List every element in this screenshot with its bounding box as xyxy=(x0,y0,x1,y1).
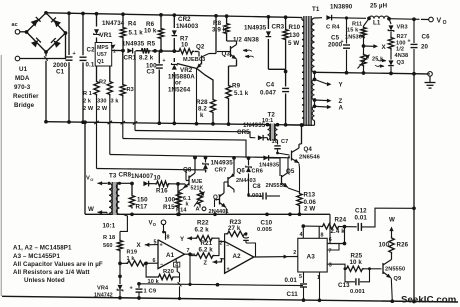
wire ground rail right xyxy=(315,72,429,74)
svg-text:150: 150 xyxy=(137,197,148,204)
svg-text:R19: R19 xyxy=(127,249,138,255)
svg-text:0.001: 0.001 xyxy=(350,289,366,295)
transistor Q8 MJE521 xyxy=(183,156,203,192)
svg-text:10 k: 10 k xyxy=(144,28,157,35)
svg-text:8.2 k: 8.2 k xyxy=(139,55,154,62)
svg-text:R2: R2 xyxy=(99,80,106,86)
svg-text:Q3: Q3 xyxy=(222,51,231,58)
svg-text:+: + xyxy=(130,285,133,291)
capacitor C8 0.001 xyxy=(247,177,280,200)
svg-text:2 k: 2 k xyxy=(83,99,92,105)
svg-text:521K: 521K xyxy=(191,185,204,191)
svg-text:10: 10 xyxy=(181,42,189,49)
svg-text:C8: C8 xyxy=(253,183,262,190)
svg-text:R16: R16 xyxy=(156,188,168,195)
svg-text:1N4935: 1N4935 xyxy=(122,40,145,47)
svg-text:C12: C12 xyxy=(355,207,367,214)
capacitor C3 100 xyxy=(146,58,166,76)
svg-text:R10: R10 xyxy=(289,24,301,31)
transistor Q9 2N5550 xyxy=(383,254,405,282)
node X receive arrow xyxy=(137,242,159,249)
svg-text:15 k: 15 k xyxy=(347,28,359,34)
wire bridge bottom to common rail xyxy=(44,52,48,122)
svg-text:10 k: 10 k xyxy=(350,259,363,266)
node X arrow xyxy=(364,44,387,51)
node W send arrow xyxy=(389,216,395,236)
wire T3 drop x127 xyxy=(120,214,127,231)
wire Q4 collector to T1 primary bottom xyxy=(299,123,303,144)
svg-text:970-3: 970-3 xyxy=(14,84,31,91)
wire A3 pin6 loop xyxy=(327,227,346,246)
svg-text:0.01: 0.01 xyxy=(285,277,298,284)
svg-text:Q1: Q1 xyxy=(97,59,104,65)
svg-text:R17: R17 xyxy=(136,204,148,211)
wire R2 cross rail xyxy=(108,96,112,155)
resistor R23 27k xyxy=(225,219,246,242)
svg-text:R15: R15 xyxy=(163,204,175,211)
capacitor C13 0.001 parallel xyxy=(338,269,370,295)
svg-text:T3: T3 xyxy=(109,173,117,180)
wire C1 vertical xyxy=(68,13,70,122)
capacitor C7 10 xyxy=(272,139,289,153)
resistor R2 330 2W xyxy=(97,80,113,113)
svg-text:1N4007: 1N4007 xyxy=(131,173,154,180)
svg-text:L1: L1 xyxy=(373,20,381,27)
node T1 center tap xyxy=(313,70,317,108)
resistor R22 6.2k xyxy=(195,220,214,241)
svg-text:2N4401: 2N4401 xyxy=(209,209,229,215)
svg-text:or: or xyxy=(175,80,182,87)
label A3 pin2 xyxy=(293,250,296,256)
wire A1 pin6 input xyxy=(144,261,158,265)
svg-text:CR7: CR7 xyxy=(215,168,227,174)
diode CR1 1N4935 xyxy=(122,40,145,61)
node C1 bottom xyxy=(67,120,71,124)
svg-text:Q3: Q3 xyxy=(397,60,405,66)
node R4 junction xyxy=(121,49,176,53)
diode bridge arm top-left xyxy=(31,17,41,27)
svg-text:560: 560 xyxy=(103,243,113,249)
svg-text:A3: A3 xyxy=(307,253,316,260)
wire R10 vertical xyxy=(285,17,287,86)
svg-text:1/2: 1/2 xyxy=(396,47,404,53)
wire CR7 bottom link xyxy=(205,170,208,173)
svg-text:330: 330 xyxy=(97,99,107,105)
svg-text:5.1 k: 5.1 k xyxy=(234,90,249,97)
svg-text:100: 100 xyxy=(165,197,176,204)
node VO terminal A1 xyxy=(149,220,166,240)
inductor L1 25uH xyxy=(369,3,389,27)
svg-text:R22: R22 xyxy=(197,220,209,227)
wire R25 to Q9 base xyxy=(364,267,382,270)
svg-text:1N4003: 1N4003 xyxy=(176,23,199,30)
svg-text:MPS: MPS xyxy=(97,45,109,51)
wire C10 feedback xyxy=(246,243,256,257)
wire R2 vertical top xyxy=(109,66,111,80)
capacitor C4 0.047 xyxy=(260,82,289,97)
wire Q7 base xyxy=(215,200,220,208)
wire ac1 to bridge xyxy=(20,31,27,33)
zener VR3 1N5364 xyxy=(388,25,407,32)
wire A3 pin1 xyxy=(317,272,321,302)
node T2 tops xyxy=(266,123,280,127)
svg-text:W: W xyxy=(88,206,94,213)
svg-text:R13: R13 xyxy=(304,192,316,199)
svg-text:100: 100 xyxy=(379,241,390,248)
wire right vertical xyxy=(413,74,415,302)
wire R3 vertical top xyxy=(122,51,124,83)
svg-text:C4: C4 xyxy=(266,82,275,89)
svg-text:2N6546: 2N6546 xyxy=(299,154,321,160)
node Z tap arrow xyxy=(315,98,343,105)
svg-text:0.1: 0.1 xyxy=(86,62,95,69)
svg-text:Bridge: Bridge xyxy=(14,102,35,109)
svg-text:C6: C6 xyxy=(422,34,431,41)
svg-text:A1, A2 – MC1458P1: A1, A2 – MC1458P1 xyxy=(13,245,72,252)
label notes xyxy=(13,245,103,284)
diode bridge arm bottom-right xyxy=(51,38,61,48)
svg-text:+: + xyxy=(408,39,411,45)
transistor Q3 phototransistor 1/2 4N38 xyxy=(217,37,259,60)
node A tap arrow xyxy=(315,104,344,111)
svg-text:+: + xyxy=(163,58,166,64)
svg-text:8: 8 xyxy=(167,235,170,241)
transistor Q5 2N5550 xyxy=(266,168,295,189)
svg-text:1N4935: 1N4935 xyxy=(211,160,234,167)
svg-text:Unless Noted: Unless Noted xyxy=(24,277,65,284)
wire VR4 bottom xyxy=(118,291,122,300)
svg-text:A: A xyxy=(339,104,344,111)
svg-text:6: 6 xyxy=(329,237,332,243)
wire CR3 vertical xyxy=(267,17,269,70)
svg-text:Q6: Q6 xyxy=(237,168,246,175)
resistor R5 8.2k xyxy=(139,41,156,62)
wire A3 pin7 loop xyxy=(327,244,339,255)
resistor R6 10k xyxy=(144,21,164,40)
diode bridge arm bottom-left xyxy=(31,38,41,48)
svg-text:3 k: 3 k xyxy=(111,99,120,105)
resistor R11 15k xyxy=(347,22,366,39)
wire VR1 vertical xyxy=(96,14,98,43)
node ac input terminal 1 xyxy=(12,22,20,34)
wire left drop x85 xyxy=(83,120,87,214)
resistor R21 6.2k xyxy=(195,240,215,258)
wire Q2 emitter to VR2 and R28 xyxy=(177,64,213,99)
wire A3 pin4 xyxy=(300,224,306,238)
svg-text:All Resistors are 1/4 Watt: All Resistors are 1/4 Watt xyxy=(13,269,90,276)
svg-text:O: O xyxy=(90,177,93,182)
svg-text:2N5550: 2N5550 xyxy=(266,183,287,189)
node L1 ends xyxy=(367,17,416,22)
transistor Q1 MPS-U57 outline box xyxy=(95,43,112,67)
label U1 MDA 970-3 Rectifier Bridge xyxy=(13,66,39,109)
svg-text:0.005: 0.005 xyxy=(257,227,273,233)
transistor Q7 2N4401 xyxy=(209,188,229,215)
svg-text:Q9: Q9 xyxy=(394,276,402,282)
svg-text:1N4935: 1N4935 xyxy=(259,163,279,169)
svg-text:C1: C1 xyxy=(56,69,65,76)
svg-text:1 C9: 1 C9 xyxy=(144,289,157,295)
capacitor C6 20 xyxy=(408,19,431,73)
transformer T2 core xyxy=(270,124,274,142)
capacitor C5 2000 xyxy=(328,18,350,73)
wire Q9 emitter to bottom rail xyxy=(390,278,394,303)
svg-text:6.2 k: 6.2 k xyxy=(199,247,214,254)
svg-text:+: + xyxy=(227,266,230,272)
svg-text:6.2 k: 6.2 k xyxy=(195,227,210,234)
label 1N5364 xyxy=(345,35,366,41)
svg-text:Rectifier: Rectifier xyxy=(13,93,39,100)
zener VR2 1N5880A or 1N5264 xyxy=(168,63,195,93)
node ac input terminal 2 xyxy=(15,56,20,61)
wire pin2 entry xyxy=(290,256,298,258)
node ground rail dots xyxy=(345,71,416,76)
diode CR6 xyxy=(246,158,263,177)
node VR2 bottom xyxy=(172,122,176,126)
svg-text:U1: U1 xyxy=(19,66,28,73)
wire R18 to VR4 xyxy=(118,252,122,284)
svg-text:Q2: Q2 xyxy=(196,44,205,51)
potentiometer A adjust xyxy=(194,190,205,207)
potentiometer R12 25k xyxy=(358,53,385,69)
wire bottom mid rail xyxy=(85,213,330,215)
wire R6 vertical xyxy=(160,15,162,51)
transformer T2 primary xyxy=(268,124,271,140)
wire R15 column xyxy=(177,184,179,195)
wire R14 bottom xyxy=(177,205,181,216)
wire pin7 to R21 xyxy=(190,254,195,255)
wire main common rail xyxy=(46,122,302,125)
wire lower rail y284 xyxy=(137,282,303,287)
svg-text:R9: R9 xyxy=(232,83,241,90)
svg-text:ac: ac xyxy=(12,22,18,28)
wire C2 vertical xyxy=(82,14,84,123)
wire R9 bottom xyxy=(227,100,231,126)
svg-text:R5: R5 xyxy=(147,41,156,48)
wire staircase line 4 xyxy=(97,169,207,170)
svg-text:3: 3 xyxy=(329,262,332,268)
svg-text:1N4935: 1N4935 xyxy=(244,25,267,32)
resistor R10 130 5W xyxy=(283,24,301,47)
wire R19 left xyxy=(120,262,126,264)
svg-text:130: 130 xyxy=(289,32,300,39)
svg-text:MJE: MJE xyxy=(192,179,203,185)
node right vertical dots xyxy=(412,206,416,303)
wire C7 to Q4 base xyxy=(276,152,289,155)
wire R24 line xyxy=(303,225,321,227)
resistor R3 3k xyxy=(111,83,134,105)
wire VR2 vertical xyxy=(173,58,175,123)
transformer T3 primary xyxy=(107,182,112,214)
transistor Q6 2N4403 xyxy=(224,158,256,193)
diode CR8 1N4007 xyxy=(119,172,154,187)
resistor R27 100 xyxy=(388,32,407,51)
svg-text:CR5: CR5 xyxy=(237,129,250,136)
wire ac2 run xyxy=(20,34,66,59)
svg-text:SeekIC.com: SeekIC.com xyxy=(401,295,456,306)
svg-text:4: 4 xyxy=(300,232,303,238)
svg-text:k: k xyxy=(200,112,204,119)
svg-text:CR2: CR2 xyxy=(178,16,191,23)
resistor R25 10k xyxy=(345,252,364,271)
wire to Q5 base xyxy=(269,158,280,176)
node staircase3 dots xyxy=(193,156,250,160)
svg-text:1N4734: 1N4734 xyxy=(102,20,125,27)
svg-text:2: 2 xyxy=(220,240,223,246)
diode CR2 1N4003 xyxy=(172,16,199,36)
watermark SeekIC.com xyxy=(401,295,456,306)
diode CR3 1N4935 xyxy=(244,24,285,37)
svg-text:VR1: VR1 xyxy=(100,32,113,39)
svg-text:1N3890: 1N3890 xyxy=(330,4,353,11)
resistor R16 10 xyxy=(154,174,171,194)
wire Q3 emitter to R9 xyxy=(229,59,237,84)
svg-text:R14: R14 xyxy=(176,208,187,214)
svg-text:MJEB03: MJEB03 xyxy=(183,57,205,63)
wire R4 vertical xyxy=(122,14,124,50)
svg-text:C13: C13 xyxy=(338,282,350,289)
label T2 10:1 xyxy=(262,112,275,124)
transformer T1 core xyxy=(304,16,311,126)
wire C4 bottom xyxy=(284,94,288,127)
node Z receive arrow xyxy=(204,259,225,267)
svg-text:−: − xyxy=(226,243,229,249)
resistor R20 10k loop xyxy=(146,263,174,285)
svg-text:R 1: R 1 xyxy=(83,91,92,97)
svg-text:1N5264: 1N5264 xyxy=(168,87,191,94)
wire R24 to C12 xyxy=(340,225,357,229)
svg-text:MDA: MDA xyxy=(15,75,30,82)
op-amp A2 MC1458P1 xyxy=(220,240,254,273)
rectifier bridge U1 diamond xyxy=(27,13,66,52)
svg-text:5.1 k: 5.1 k xyxy=(129,30,144,37)
wire staircase line 2 xyxy=(123,139,246,158)
wire VR3 column top xyxy=(389,19,391,24)
capacitor C10 0.005 xyxy=(243,220,272,243)
transistor Q2 MJE803 xyxy=(183,44,216,69)
wire A1 output pin7 xyxy=(185,252,196,286)
resistor R1 2k 2W xyxy=(83,80,99,112)
wire CR3 to C4 link xyxy=(268,69,287,73)
diode Q3 opto LED xyxy=(388,50,394,75)
op-amp A1 MC1458P1 xyxy=(153,235,190,269)
capacitor C12 0.01 xyxy=(355,207,368,231)
resistor R8 3.9k xyxy=(212,20,229,35)
wire A3 pin3 xyxy=(327,262,346,270)
wire R13 bottom xyxy=(299,207,301,214)
wire R12 wiper light arrows xyxy=(375,59,386,68)
svg-text:C11: C11 xyxy=(287,291,299,298)
svg-text:C10: C10 xyxy=(261,220,273,227)
svg-text:A: A xyxy=(196,207,200,213)
wire R21 R22 join to pin2 xyxy=(214,238,225,255)
svg-text:Z: Z xyxy=(204,260,208,266)
capacitor C1 2000 xyxy=(53,51,76,76)
resistor R13 0.06 2W xyxy=(297,192,317,213)
svg-text:V: V xyxy=(437,17,442,24)
svg-text:+: + xyxy=(341,39,344,45)
zener VR1 1N4734 xyxy=(94,20,125,39)
svg-text:2N5550: 2N5550 xyxy=(385,266,405,272)
wire CR2 vertical xyxy=(173,15,175,51)
svg-text:R4: R4 xyxy=(128,21,137,28)
svg-text:C2: C2 xyxy=(87,47,96,54)
node W receive arrow xyxy=(88,206,107,214)
capacitor C9 1 xyxy=(130,284,157,300)
wire top supply bus xyxy=(46,13,302,18)
svg-text:T1: T1 xyxy=(312,6,320,13)
svg-text:A2: A2 xyxy=(233,253,242,260)
svg-text:1N5880A: 1N5880A xyxy=(168,74,195,81)
transformer T1 secondary xyxy=(311,6,319,121)
node VO receive arrow xyxy=(86,176,107,186)
wire Q1 emitter arrow xyxy=(111,45,117,55)
svg-text:0.01: 0.01 xyxy=(355,214,368,221)
svg-text:Q8: Q8 xyxy=(183,167,192,174)
svg-text:10:1: 10:1 xyxy=(103,223,116,230)
wire base rail y51 xyxy=(112,50,199,51)
transformer T1 primary xyxy=(302,18,305,125)
wire Q2 collector to bus xyxy=(214,14,218,54)
wire T1 secondary bottom xyxy=(302,121,315,126)
wire R28 bottom xyxy=(211,114,215,126)
transformer T3 core xyxy=(112,182,117,215)
node bottom-mid rail dots xyxy=(130,212,301,216)
wire R8 vertical xyxy=(226,16,228,41)
svg-text:4N38: 4N38 xyxy=(395,53,409,59)
svg-text:1N5364: 1N5364 xyxy=(345,35,366,41)
diode bridge arm top-right xyxy=(51,18,61,28)
svg-text:1N4935: 1N4935 xyxy=(243,122,266,129)
svg-text:1 k: 1 k xyxy=(127,256,136,262)
wire aux column cross rail xyxy=(133,51,137,131)
wire Q3 light arrows xyxy=(243,49,254,59)
ground symbol xyxy=(425,76,436,88)
wire staircase line 1 xyxy=(135,131,250,138)
svg-text:5: 5 xyxy=(299,274,302,280)
transformer T2 secondary xyxy=(275,124,278,140)
svg-text:+: + xyxy=(160,243,163,249)
svg-text:R27: R27 xyxy=(397,34,408,40)
transformer T3 secondary xyxy=(116,182,121,215)
left border xyxy=(0,55,2,296)
svg-text:VR4: VR4 xyxy=(97,286,109,292)
svg-text:0.047: 0.047 xyxy=(260,90,276,97)
node A1 supply dot xyxy=(162,231,165,234)
wire R1 vertical top xyxy=(96,66,98,80)
node Y tap arrow xyxy=(315,79,344,88)
node Y receive arrow xyxy=(180,236,195,243)
svg-text:2.4 k: 2.4 k xyxy=(331,228,346,235)
resistor R19 1k xyxy=(126,249,146,266)
svg-text:A1: A1 xyxy=(166,252,175,259)
node ground terminal xyxy=(428,72,433,77)
svg-text:R24: R24 xyxy=(335,216,347,223)
diode staircase2 1N4935 xyxy=(259,155,279,168)
wire bottom mid rail right end xyxy=(329,214,331,243)
diode CR5 1N4935 xyxy=(237,122,266,141)
svg-text:VR3: VR3 xyxy=(397,25,408,31)
wire Q2 base leg xyxy=(195,69,199,126)
resistor R7 10 xyxy=(178,36,195,55)
node rail dots xyxy=(44,120,48,124)
node C2 bottom xyxy=(81,120,85,124)
svg-text:5 W: 5 W xyxy=(288,40,299,47)
wire Q4 Q5 emitters to R13 xyxy=(288,164,300,193)
resistor R26 100 xyxy=(379,237,409,255)
node C3 bottom xyxy=(157,121,161,125)
resistor R9 5.1k xyxy=(226,83,249,101)
